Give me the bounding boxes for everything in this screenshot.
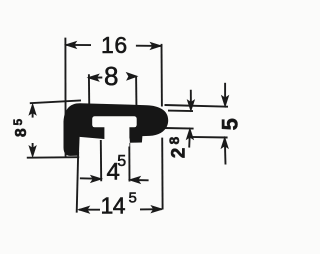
extension line bottom of 8.5 [27,156,79,159]
wire [27,38,228,213]
leader 5 lower [224,142,227,165]
leader 8.5 lower [32,143,34,154]
T-slot cavity wide part [92,116,137,127]
reference line B right [168,110,193,113]
svg-text:5: 5 [117,153,126,170]
svg-text:16: 16 [101,32,128,58]
leader 5 upper [224,83,226,101]
arrowhead 2.8 down [188,100,194,110]
extension line right of 4.5 [128,143,130,182]
dimension 14.5 line right segment [140,208,162,210]
extension line right of 14.5 [161,138,163,210]
arrowhead 14.5 right [152,206,162,212]
dimension 8 line right segment [128,76,136,78]
arrowhead 8 left [88,75,98,81]
dimension 4.5 line left segment [80,177,97,179]
arrowhead 5 down [222,96,228,106]
svg-text:5: 5 [11,118,25,125]
arrowhead 16 left [66,42,76,48]
extension line right of 8 [135,76,137,112]
arrowhead 8.5 up [29,104,35,114]
arrowhead 16 right [151,43,161,49]
svg-text:8: 8 [104,61,118,91]
arrowhead 4.5 left-pointing [130,177,140,183]
reference line A right top [165,105,229,107]
dimension 4.5 line right segment [134,179,149,181]
leader 2.8 lower [188,133,191,148]
svg-text:8: 8 [13,128,30,137]
extension line left of 8 [88,74,90,112]
extension line left of 4.5 [100,140,102,181]
dimension 8 line left segment [88,77,102,79]
dimension 16 line left segment [66,44,91,46]
extension line right of 16 [161,44,163,107]
arrowhead 4.5 right-pointing [91,176,101,182]
svg-text:5: 5 [217,118,242,130]
dimension 14.5 line left segment [79,209,100,211]
arrowhead 14.5 left [79,207,89,213]
reference line D right [189,136,228,139]
extension line left of 16 [64,38,66,157]
arrowhead 8.5 down [29,146,35,156]
extension line left of 14.5 [77,152,79,213]
svg-text:8: 8 [166,136,182,144]
dimension 16 line right segment [136,45,161,47]
leader 2.8 upper [190,90,192,105]
svg-text:14: 14 [101,193,126,219]
leader 8.5 upper [32,107,34,118]
svg-text:2: 2 [168,148,189,159]
arrowhead 5 up [222,138,228,148]
arrowhead 2.8 up [187,129,193,139]
extension line top of 8.5 [30,100,81,103]
svg-text:5: 5 [129,190,137,207]
reference line C right [164,127,193,130]
profile cross-section body [64,103,169,156]
arrowhead 8 right [127,73,137,80]
T-slot cavity throat [104,119,129,147]
